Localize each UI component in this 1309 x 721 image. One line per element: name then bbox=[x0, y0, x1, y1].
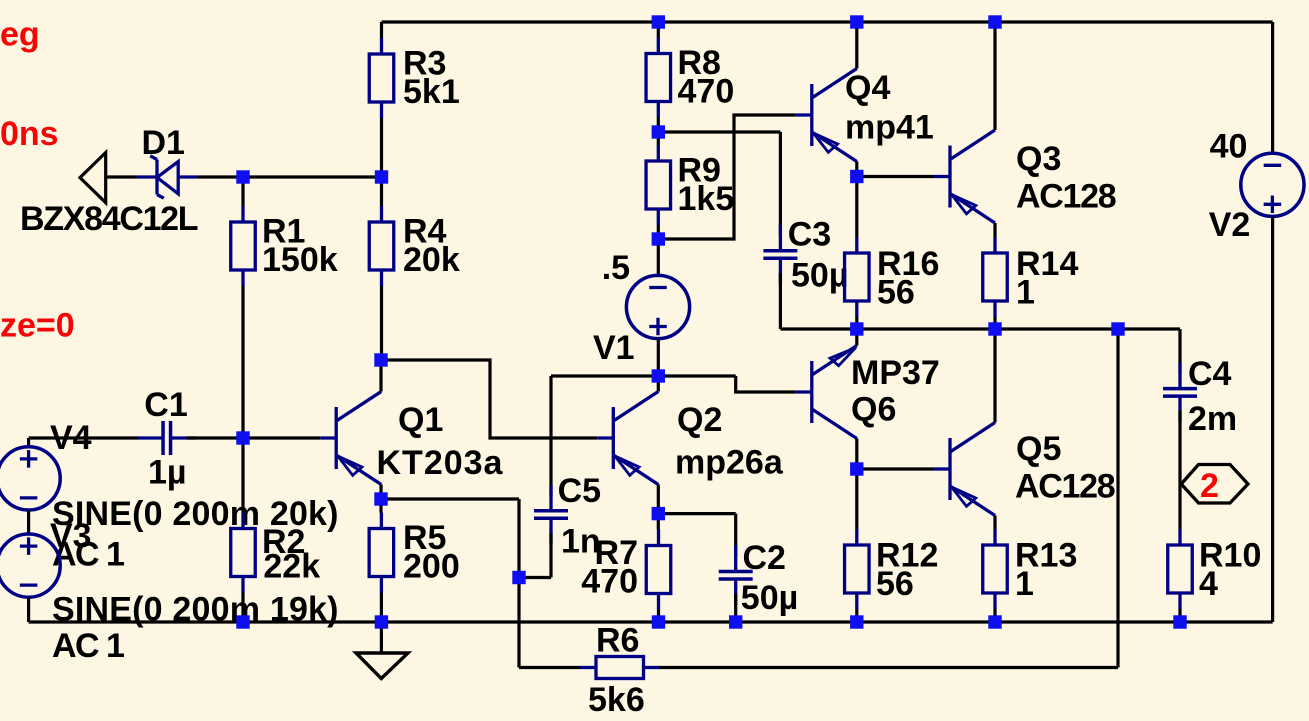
svg-text:AC 1: AC 1 bbox=[52, 536, 124, 574]
svg-text:Q1: Q1 bbox=[398, 401, 443, 439]
svg-text:MP37: MP37 bbox=[851, 354, 940, 392]
svg-text:eg: eg bbox=[0, 16, 40, 54]
svg-text:AC 1: AC 1 bbox=[52, 627, 124, 665]
svg-text:1: 1 bbox=[1016, 274, 1035, 312]
svg-text:.5: .5 bbox=[602, 249, 630, 287]
svg-text:C1: C1 bbox=[144, 386, 187, 424]
svg-text:AC128: AC128 bbox=[1015, 468, 1115, 506]
svg-text:1k5: 1k5 bbox=[678, 180, 735, 218]
svg-text:4: 4 bbox=[1199, 565, 1218, 603]
svg-text:470: 470 bbox=[678, 73, 735, 111]
svg-text:2m: 2m bbox=[1188, 400, 1237, 438]
svg-text:200: 200 bbox=[403, 548, 460, 586]
svg-text:ze=0: ze=0 bbox=[0, 307, 75, 345]
svg-text:2: 2 bbox=[1200, 467, 1219, 505]
svg-text:56: 56 bbox=[877, 274, 915, 312]
svg-text:Q6: Q6 bbox=[851, 391, 896, 429]
svg-text:150k: 150k bbox=[262, 241, 338, 279]
svg-text:Q5: Q5 bbox=[1016, 430, 1061, 468]
svg-text:5k6: 5k6 bbox=[588, 681, 645, 719]
svg-text:Q4: Q4 bbox=[845, 69, 890, 107]
svg-text:22k: 22k bbox=[263, 548, 320, 586]
svg-text:0ns: 0ns bbox=[0, 115, 59, 153]
svg-text:V1: V1 bbox=[593, 329, 635, 367]
svg-text:20k: 20k bbox=[403, 241, 460, 279]
svg-text:56: 56 bbox=[876, 565, 914, 603]
svg-text:Q3: Q3 bbox=[1016, 140, 1061, 178]
svg-text:D1: D1 bbox=[142, 124, 185, 162]
svg-text:40: 40 bbox=[1210, 128, 1248, 166]
svg-text:C5: C5 bbox=[558, 472, 601, 510]
svg-text:1: 1 bbox=[1015, 565, 1034, 603]
svg-text:50µ: 50µ bbox=[791, 257, 848, 295]
svg-text:mp41: mp41 bbox=[845, 109, 934, 147]
svg-text:5k1: 5k1 bbox=[403, 73, 460, 111]
svg-text:R6: R6 bbox=[596, 622, 639, 660]
svg-text:C3: C3 bbox=[788, 216, 831, 254]
svg-text:50µ: 50µ bbox=[741, 579, 798, 617]
svg-text:470: 470 bbox=[581, 563, 638, 601]
svg-text:V2: V2 bbox=[1209, 206, 1251, 244]
svg-text:AC128: AC128 bbox=[1016, 178, 1116, 216]
svg-text:1µ: 1µ bbox=[148, 453, 187, 491]
svg-text:Q2: Q2 bbox=[677, 401, 722, 439]
svg-text:KT203a: KT203a bbox=[377, 444, 504, 482]
svg-text:BZX84C12L: BZX84C12L bbox=[20, 200, 198, 238]
svg-text:mp26a: mp26a bbox=[675, 444, 784, 482]
